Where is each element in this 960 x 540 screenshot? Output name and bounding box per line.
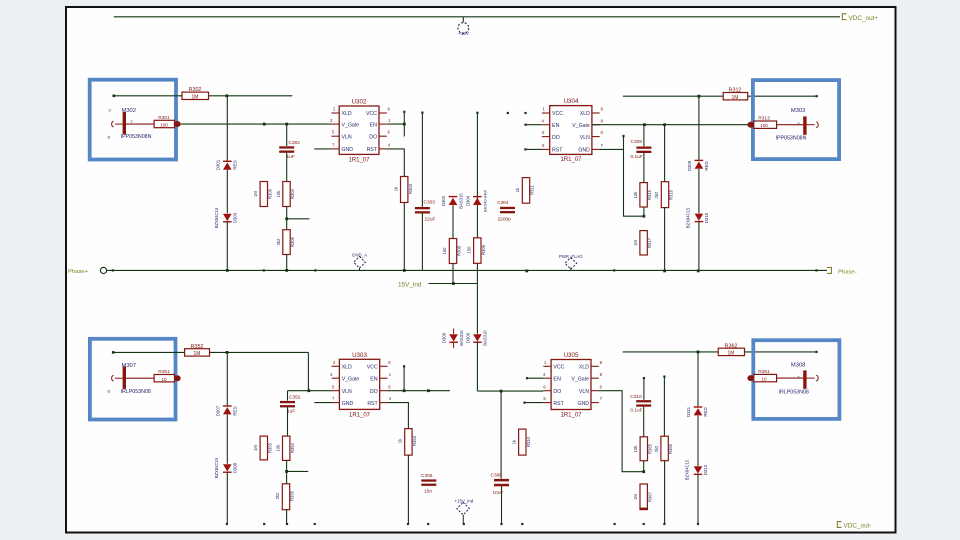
- wire bus to U305: [477, 390, 543, 392]
- pin 5 U302 stub: [331, 135, 339, 137]
- svg-text:1M: 1M: [253, 445, 258, 451]
- wire stub right tl: [287, 218, 310, 220]
- svg-text:VCC: VCC: [366, 111, 377, 117]
- svg-text:15n: 15n: [424, 488, 432, 494]
- wire C352-R354: [287, 407, 289, 436]
- wire phase main: [107, 269, 827, 271]
- wire RST U303 right: [388, 403, 409, 429]
- diode D301: [223, 162, 232, 169]
- resistor R362: [718, 348, 744, 355]
- svg-text:R352: R352: [191, 344, 204, 350]
- svg-text:RST: RST: [552, 147, 563, 153]
- wire RST U305 left: [525, 402, 544, 404]
- wire drain bottom-right: [623, 351, 719, 353]
- svg-text:10k: 10k: [276, 190, 281, 198]
- svg-text:R351: R351: [158, 369, 170, 375]
- svg-text:DO: DO: [369, 134, 377, 140]
- svg-text:D312: D312: [703, 464, 708, 475]
- resistor R312: [723, 93, 748, 100]
- node gate dangling br: [643, 377, 645, 379]
- svg-text:XLD: XLD: [342, 365, 352, 371]
- wire drain bottom-left: [113, 351, 184, 353]
- svg-text:BZX84C15: BZX84C15: [214, 457, 219, 478]
- junction R367 end: [643, 523, 645, 525]
- transistor M307 gate arc: [112, 375, 114, 381]
- transistor M302 body: [123, 112, 126, 134]
- diode D304: [473, 198, 482, 205]
- wire R313 gate: [777, 124, 804, 126]
- svg-text:C352: C352: [289, 394, 301, 400]
- wire drain top-right b: [748, 95, 817, 97]
- junction nc bottom1: [427, 523, 429, 525]
- wire D310 cathode: [698, 221, 700, 271]
- power flag PWR02 stem: [570, 268, 572, 271]
- pin bubble R361 left: [747, 375, 754, 381]
- svg-text:1uF: 1uF: [287, 154, 295, 160]
- svg-text:R356: R356: [290, 490, 295, 501]
- svg-text:R317: R317: [647, 237, 652, 248]
- pin bubble Phase_A: [100, 267, 106, 273]
- svg-text:VLN: VLN: [342, 134, 352, 140]
- svg-text:VDC_out+: VDC_out+: [849, 15, 879, 22]
- svg-text:R302: R302: [189, 87, 202, 93]
- wire drain to XLD: [307, 352, 309, 390]
- resistor R313: [754, 121, 777, 128]
- transistor M303 body: [803, 116, 806, 134]
- svg-text:RED: RED: [232, 406, 237, 415]
- svg-text:D304: D304: [465, 195, 470, 206]
- wire stub right bl: [287, 470, 309, 472]
- transistor M308 gate lead: [807, 377, 815, 379]
- junction R302 right: [225, 94, 228, 97]
- pin 4 U303 stub: [380, 402, 388, 404]
- wire gate top-left: [181, 123, 332, 125]
- svg-text:VCC: VCC: [367, 365, 378, 371]
- svg-text:D306: D306: [465, 332, 470, 343]
- svg-text:RST: RST: [367, 147, 378, 153]
- pin 7 U303 stub: [332, 402, 340, 404]
- pin 8 U305 stub: [591, 377, 599, 379]
- svg-text:D305: D305: [442, 332, 447, 343]
- pin 5 U305 stub: [543, 402, 551, 404]
- svg-text:R315: R315: [647, 189, 652, 200]
- transistor M303 gate arc: [816, 122, 818, 128]
- wire C352 top: [287, 391, 289, 401]
- svg-text:0.1uF: 0.1uF: [631, 154, 643, 160]
- svg-text:DO: DO: [370, 389, 378, 395]
- resistor R315: [640, 183, 647, 207]
- junction C306 end: [500, 523, 502, 525]
- wire D308 cathode: [226, 472, 228, 523]
- svg-text:R303: R303: [408, 183, 413, 194]
- svg-text:0.1uF: 0.1uF: [630, 408, 642, 414]
- junction EN U305 end: [526, 377, 528, 379]
- svg-text:VLN: VLN: [579, 389, 589, 395]
- svg-text:XLD: XLD: [580, 111, 590, 117]
- power flag PWR01 stem: [462, 17, 464, 23]
- pin 5 U303 stub: [332, 390, 340, 392]
- pin 1 U305 stub: [543, 365, 551, 367]
- junction phase D303: [226, 269, 229, 272]
- pin 8 U302 stub: [379, 112, 387, 114]
- resistor R356: [282, 484, 289, 510]
- svg-text:D311: D311: [686, 406, 691, 417]
- diode D305 stub bottom: [453, 343, 455, 348]
- junction phase R306: [285, 269, 288, 272]
- svg-text:1M: 1M: [728, 351, 735, 357]
- diode D310: [695, 214, 704, 221]
- wire C306 top: [500, 391, 502, 479]
- junction drain br end: [815, 351, 817, 353]
- wire drain top-left b: [209, 95, 293, 97]
- svg-text:IRLP053N08: IRLP053N08: [779, 390, 809, 396]
- junction R355 end: [263, 523, 265, 525]
- svg-text:+15V_ind: +15V_ind: [454, 499, 473, 504]
- capacitor C303: [415, 207, 430, 209]
- pin 5 U304 stub: [542, 148, 550, 150]
- diode D305 stub top: [453, 329, 455, 334]
- resistor R306: [283, 230, 290, 255]
- svg-text:GND: GND: [342, 401, 354, 407]
- junction GND U303 end: [314, 523, 316, 525]
- wire EN tie vertical: [403, 112, 405, 137]
- junction GND tie top: [622, 135, 624, 137]
- wire DO U303 right: [388, 390, 451, 392]
- svg-text:10: 10: [161, 377, 167, 382]
- wire C310-R365: [643, 407, 645, 437]
- svg-text:RED: RED: [703, 407, 708, 416]
- junction 15V D302: [452, 282, 455, 285]
- svg-text:22uF: 22uF: [425, 217, 436, 223]
- wire D311 anode: [697, 352, 699, 408]
- svg-text:C310: C310: [630, 394, 642, 400]
- wire VLN U305 right: [599, 391, 644, 472]
- svg-text:VDC_out-: VDC_out-: [844, 523, 872, 530]
- diode D302: [449, 198, 458, 205]
- wire R365 bottom: [643, 461, 645, 472]
- resistor R303: [401, 177, 408, 203]
- junction nc bottom2: [614, 523, 616, 525]
- svg-text:U304: U304: [564, 98, 579, 105]
- wire R353 end: [407, 455, 409, 523]
- resistor R302: [182, 92, 209, 99]
- resistor R366: [661, 436, 668, 461]
- pin 1 U304 stub: [542, 112, 550, 114]
- junction phase D310: [697, 270, 700, 273]
- wire drain bottom-right b: [745, 351, 817, 353]
- svg-text:R313: R313: [758, 116, 770, 122]
- svg-text:R308: R308: [457, 245, 462, 256]
- node nc2 U304: [524, 112, 526, 114]
- svg-text:M308: M308: [791, 362, 806, 368]
- resistor R365: [640, 437, 647, 461]
- junction gate R305: [263, 123, 266, 126]
- svg-text:IPP053N08N: IPP053N08N: [776, 135, 807, 141]
- diode D312: [694, 466, 703, 473]
- junction EN U304 end: [524, 124, 526, 126]
- resistor R309: [474, 238, 481, 263]
- svg-text:1M: 1M: [633, 240, 638, 246]
- svg-text:RED: RED: [704, 161, 709, 170]
- power flag PWR02: [565, 258, 577, 270]
- svg-text:BZX84C15: BZX84C15: [686, 207, 691, 228]
- wire D301 anode: [226, 96, 228, 162]
- capacitor C302: [279, 146, 294, 148]
- pin 8 U303 stub: [380, 365, 388, 367]
- pin 4 U302 stub: [379, 148, 387, 150]
- svg-text:C304: C304: [497, 200, 509, 206]
- svg-text:D307: D307: [215, 405, 220, 416]
- node nc1 U304: [507, 112, 509, 114]
- svg-text:V_Gate: V_Gate: [342, 377, 360, 383]
- svg-text:Phase-: Phase-: [838, 269, 857, 275]
- resistor R361: [754, 374, 777, 381]
- highlight box top-right: [753, 80, 839, 159]
- wire EN U302 right: [387, 123, 405, 125]
- transistor M302 gate arc: [112, 121, 114, 127]
- junction L end br: [642, 470, 645, 473]
- pin 6 U305 stub: [543, 390, 551, 392]
- junction gate C302: [285, 123, 288, 126]
- svg-text:BZX84C15: BZX84C15: [685, 459, 690, 480]
- svg-text:V_Gate: V_Gate: [342, 122, 360, 128]
- pin 6 U302 stub: [379, 135, 387, 137]
- wire R303-phase: [403, 203, 405, 271]
- wire GND tie up: [623, 136, 625, 149]
- junction stub node: [285, 217, 288, 220]
- junction EN node: [403, 123, 406, 126]
- junction D312 end: [697, 523, 699, 525]
- capacitor C304: [500, 207, 515, 209]
- svg-text:VCC: VCC: [553, 365, 564, 371]
- wire 15V_ind: [429, 283, 478, 285]
- power port GND_A stem: [359, 268, 361, 270]
- svg-text:IPP053N08N: IPP053N08N: [121, 134, 152, 140]
- svg-text:R309: R309: [481, 244, 486, 255]
- junction pwr end: [463, 523, 465, 525]
- junction D311 top: [697, 351, 700, 354]
- junction gate C309: [643, 123, 646, 126]
- pin 6 U304 stub: [542, 136, 550, 138]
- svg-text:GND: GND: [578, 147, 590, 153]
- svg-text:V_Gate: V_Gate: [571, 377, 589, 383]
- svg-text:100: 100: [760, 123, 768, 128]
- svg-text:D309: D309: [687, 160, 692, 171]
- svg-text:2k2: 2k2: [276, 238, 281, 245]
- capacitor C306: [494, 479, 509, 482]
- svg-text:+15V: +15V: [458, 31, 470, 36]
- resistor R354: [283, 436, 290, 460]
- svg-text:15V_ind: 15V_ind: [398, 282, 422, 289]
- pin 8b U304 stub: [592, 112, 600, 114]
- svg-text:EN: EN: [370, 122, 378, 128]
- svg-text:R311: R311: [530, 184, 535, 194]
- diode D306: [473, 334, 482, 341]
- capacitor C310: [636, 400, 651, 402]
- junction R353 end: [407, 523, 409, 525]
- wire RST U302 right: [387, 149, 405, 177]
- svg-text:d: d: [109, 108, 111, 113]
- capacitor C305: [421, 479, 436, 481]
- svg-text:VCC: VCC: [552, 111, 563, 117]
- wire D303 cathode: [226, 222, 228, 271]
- wire D311-D312: [697, 416, 699, 466]
- svg-text:VLN: VLN: [342, 389, 352, 395]
- svg-text:R316: R316: [669, 189, 674, 200]
- power port GND_A: [354, 257, 366, 269]
- svg-text:D308: D308: [232, 462, 237, 473]
- wire central bus top: [476, 113, 478, 334]
- wire drain top-right: [623, 95, 723, 97]
- resistor R304: [283, 182, 290, 207]
- wire C303 top: [421, 113, 423, 207]
- svg-text:1M: 1M: [194, 351, 201, 357]
- junction bus top: [476, 112, 478, 114]
- junction bus C306: [500, 390, 503, 393]
- wire D307-D308: [226, 415, 228, 464]
- junction drain tr end: [816, 95, 818, 97]
- svg-text:1uF: 1uF: [287, 408, 295, 414]
- op-amp U304 body: [550, 106, 592, 155]
- resistor R367: [640, 484, 647, 510]
- wire D301-D303: [226, 170, 228, 213]
- svg-text:10k: 10k: [275, 444, 280, 452]
- svg-text:BZX84C15: BZX84C15: [214, 207, 219, 228]
- svg-text:1R1_07: 1R1_07: [348, 157, 370, 163]
- wire R366 bottom: [664, 461, 666, 524]
- junction VLN drain: [308, 389, 311, 392]
- highlight box bottom-left: [90, 339, 176, 420]
- wire R315 bottom: [643, 207, 645, 216]
- svg-text:R353: R353: [412, 435, 417, 446]
- svg-text:R362: R362: [725, 343, 738, 349]
- junction R366 end: [663, 523, 665, 525]
- wire C306 bottom: [501, 486, 503, 523]
- pin 7 U305 stub: [591, 402, 599, 404]
- wire C302-R304: [286, 153, 288, 182]
- resistor R367 bottom bar: [640, 508, 648, 510]
- pin 0 U305 stub: [591, 390, 599, 392]
- resistor R311: [522, 178, 529, 204]
- wire RST U304 left: [525, 148, 542, 150]
- pin 1 U303 stub: [380, 377, 388, 379]
- wire D312 cathode: [697, 474, 699, 523]
- svg-text:R355: R355: [267, 442, 272, 453]
- svg-text:g: g: [108, 134, 110, 139]
- junction GND stub end: [643, 215, 646, 218]
- transistor M308 body: [803, 370, 806, 388]
- svg-text:PWR_FLAG: PWR_FLAG: [559, 254, 583, 259]
- pin 3 U302 stub: [331, 123, 339, 125]
- highlight box top-left: [90, 80, 176, 160]
- junction R310 end: [521, 523, 523, 525]
- pin 8b U305 stub: [591, 365, 599, 367]
- junction DO tie top: [403, 365, 405, 367]
- wire C309-R315: [643, 153, 645, 183]
- svg-text:1M: 1M: [253, 191, 258, 197]
- op-amp U303 body: [339, 359, 379, 409]
- resistor R310: [519, 429, 526, 455]
- svg-text:C305: C305: [421, 473, 433, 479]
- svg-text:R306: R306: [290, 236, 295, 247]
- junction phase n2: [314, 269, 316, 271]
- svg-text:GND: GND: [577, 401, 589, 407]
- svg-text:BAS40-04W: BAS40-04W: [483, 190, 488, 212]
- junction DO n1: [403, 389, 406, 392]
- pin bubble R313 left: [747, 122, 754, 128]
- svg-text:C306: C306: [491, 472, 503, 478]
- svg-text:M303: M303: [791, 108, 806, 114]
- wire VLN U303 left: [288, 390, 332, 392]
- svg-text:VLN: VLN: [580, 135, 590, 141]
- svg-text:R301: R301: [158, 115, 170, 121]
- junction D309 top: [698, 95, 701, 98]
- wire R354-R356: [286, 460, 288, 483]
- svg-text:R365: R365: [647, 443, 652, 454]
- svg-text:2k2: 2k2: [275, 492, 280, 499]
- svg-text:U302: U302: [352, 99, 367, 106]
- svg-text:C303: C303: [424, 200, 436, 206]
- pin 1 U302 stub: [379, 123, 387, 125]
- svg-text:GND: GND: [342, 147, 354, 153]
- junction gate R316: [663, 123, 666, 126]
- resistor R308: [449, 239, 456, 264]
- resistor R353: [405, 429, 412, 456]
- svg-text:10k: 10k: [633, 191, 638, 199]
- transistor M302 gate lead: [126, 123, 154, 125]
- wire D309 anode: [698, 96, 700, 161]
- svg-text:10k: 10k: [633, 445, 638, 453]
- resistor R355: [260, 436, 267, 460]
- svg-text:U305: U305: [564, 352, 579, 359]
- svg-text:1R1_07: 1R1_07: [560, 157, 582, 163]
- svg-text:s: s: [131, 119, 133, 124]
- junction phase n1: [263, 269, 265, 271]
- highlight box bottom-right: [753, 340, 839, 419]
- svg-text:XLD: XLD: [579, 365, 589, 371]
- svg-text:R312: R312: [729, 88, 742, 94]
- wire R316-phase: [664, 208, 666, 271]
- resistor R351: [154, 375, 174, 382]
- junction phase n3: [613, 269, 615, 271]
- diode D307: [223, 407, 232, 414]
- svg-text:100: 100: [160, 123, 168, 128]
- wire D302-R308: [452, 205, 454, 238]
- wire R316 top: [664, 125, 666, 182]
- pin 4 U305 stub: [543, 377, 551, 379]
- wire drain top-left: [114, 95, 182, 97]
- wire VDC_out+ top rail: [114, 16, 840, 18]
- svg-text:1M: 1M: [732, 95, 739, 101]
- op-amp U305 body: [551, 360, 591, 410]
- junction C303 top: [421, 112, 423, 114]
- wire R306-phase: [286, 255, 288, 271]
- transistor M303 gate lead: [807, 124, 815, 126]
- wire C302 top: [286, 124, 288, 146]
- wire GND U303 left: [314, 402, 331, 404]
- svg-text:R304: R304: [290, 188, 295, 199]
- pin 8 U304 stub: [592, 124, 600, 126]
- wire R361 gate: [777, 377, 804, 379]
- capacitor C309: [636, 147, 651, 149]
- label VDC_out+ pin: [842, 14, 846, 20]
- diode D305: [449, 334, 458, 341]
- junction phase R311: [525, 270, 528, 273]
- svg-text:10: 10: [761, 377, 767, 382]
- svg-text:RED: RED: [232, 160, 237, 169]
- junction phase R316: [663, 270, 666, 273]
- junction R366 top: [663, 376, 665, 378]
